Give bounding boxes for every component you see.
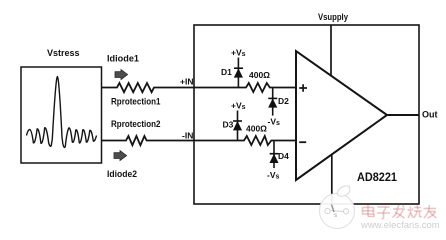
svg-text:-Vs: -Vs [267,170,280,181]
svg-text:-IN: -IN [182,131,193,141]
svg-text:Vsupply: Vsupply [318,12,348,22]
svg-text:Rprotection2: Rprotection2 [111,119,161,129]
svg-text:+Vs: +Vs [231,101,246,112]
svg-text:s: s [334,213,337,219]
svg-text:www.elecfans.com: www.elecfans.com [360,220,440,231]
svg-text:400Ω: 400Ω [249,70,270,80]
svg-text:Idiode2: Idiode2 [107,169,137,179]
svg-text:D3: D3 [223,120,234,130]
svg-text:D2: D2 [278,96,289,106]
svg-text:+IN: +IN [180,77,193,87]
svg-text:Idiode1: Idiode1 [107,54,139,64]
svg-text:AD8221: AD8221 [357,170,397,184]
svg-text:+Vs: +Vs [231,48,246,59]
svg-text:400Ω: 400Ω [246,124,267,134]
svg-text:-Vs: -Vs [268,117,281,128]
svg-text:Rprotection1: Rprotection1 [111,97,161,107]
svg-text:D4: D4 [278,151,289,161]
svg-text:D1: D1 [221,67,232,77]
svg-text:Out: Out [422,110,438,120]
svg-text:Vstress: Vstress [47,48,80,58]
